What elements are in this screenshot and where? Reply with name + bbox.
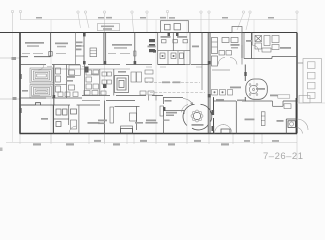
door leaves along corridor <box>39 65 203 71</box>
bottom middle rooms <box>105 98 164 134</box>
corridor top wall (y 64.5) with door gaps <box>20 64 209 66</box>
locker strip in middle of classroom <box>261 112 265 126</box>
double wall x=209 <box>207 33 209 134</box>
mid-left riser stacks (concentric) <box>30 68 53 98</box>
top band room divider walls <box>51 33 253 134</box>
door arc bottom-left rooms <box>69 126 77 134</box>
right edge quarter circle bottom <box>297 119 308 130</box>
conference room wall left of round room <box>164 111 185 115</box>
door arc bottom right <box>215 125 224 134</box>
big room partitions x 135-208 <box>145 83 205 93</box>
entry canopy top bump 1 <box>161 21 189 33</box>
fixtures above corridor (sinks row) <box>32 91 154 97</box>
counters in top-left rooms <box>22 53 130 55</box>
bottom-left big room (gym) <box>21 103 53 134</box>
title label box above wall <box>98 24 120 31</box>
mid middle rooms walls <box>85 65 129 96</box>
mid-left small fixtures <box>56 68 75 92</box>
mid middle stalls <box>86 70 153 89</box>
top wall of corridor, left part <box>20 97 46 99</box>
dimension text blobs along bottom line <box>33 17 279 146</box>
small smudge bottom-left <box>0 148 3 152</box>
small dim text blobs left <box>12 57 17 60</box>
stepped wall closet <box>272 101 274 106</box>
small room outline x69-80 <box>69 65 81 75</box>
door arcs kitchen area <box>218 45 259 65</box>
restroom block top middle (two rows) <box>158 33 190 65</box>
left dimension stubs <box>0 58 20 99</box>
scattered door jambs (dark blobs) <box>19 33 247 131</box>
right edge legend table <box>299 59 322 103</box>
bottom wall <box>20 133 298 135</box>
top wall extends off sheet to the left <box>0 32 297 34</box>
toilet room corner <box>285 119 287 134</box>
dark service blobs mid block <box>85 67 89 73</box>
mop sink corner <box>288 121 295 128</box>
right wall <box>296 33 298 99</box>
entry door jambs below canopy <box>168 33 171 36</box>
door arc upper-left of round room <box>182 105 189 113</box>
grid bubbles and dimension lines <box>6 10 298 142</box>
door jamb at divider x=134.8 <box>134 51 136 56</box>
room label text blobs (illegible small gray text) <box>27 45 238 48</box>
fixtures upper row <box>162 40 167 43</box>
entry canopy top bump 2 <box>232 27 242 33</box>
bottom-left small rooms with fixtures <box>53 105 79 134</box>
door jamb at divider <box>49 52 52 57</box>
wall right of round room <box>213 98 215 134</box>
top right rooms: wall y=58 with jog <box>244 33 297 59</box>
wall right of legend <box>297 63 325 103</box>
vestibule jog bottom center <box>121 129 231 134</box>
closet box against wall x=84 <box>90 48 97 57</box>
1-hr wall label box <box>278 95 290 98</box>
kitchen room right of thick wall <box>202 38 242 91</box>
main exterior walls <box>0 33 297 134</box>
faint vertical grid lines through plan <box>13 20 255 143</box>
fixtures lower row with dark dots <box>160 53 165 59</box>
table flower <box>191 110 203 122</box>
lockers stack dark near x=152 <box>149 39 155 52</box>
left wall <box>19 33 21 134</box>
top-left rooms bottom wall with door gap <box>20 56 51 58</box>
fixtures row above right corridor <box>212 90 233 96</box>
grid circles top <box>11 10 13 12</box>
svg-text:7–26–21: 7–26–21 <box>263 151 303 162</box>
extension ticks to bottom dim line <box>20 134 297 160</box>
mid right: sensory room, rounded square <box>245 65 267 102</box>
bottom dimension line <box>6 141 297 143</box>
bottom wall of corridor <box>20 104 41 106</box>
double wall x=104.8 <box>103 33 105 65</box>
top dimension line <box>20 19 297 21</box>
right corridor bottom wall <box>214 100 236 102</box>
lockers / tall cabinets <box>110 107 114 123</box>
arrow leader into top opening <box>183 99 193 105</box>
elevator nested <box>115 76 129 93</box>
corridor walls (middle horizontal band) <box>20 96 297 106</box>
extra divider mid-left <box>55 83 67 85</box>
bottom right rooms <box>236 95 302 134</box>
top right fixtures cluster <box>255 36 279 53</box>
upper small rooms x75-84 <box>76 33 85 65</box>
middle part slightly higher <box>82 95 110 97</box>
secondary corridor line <box>55 68 130 70</box>
bubble stems <box>12 13 14 33</box>
multi-purpose round room <box>183 99 212 130</box>
small room near x=150 on corridor <box>149 96 157 101</box>
